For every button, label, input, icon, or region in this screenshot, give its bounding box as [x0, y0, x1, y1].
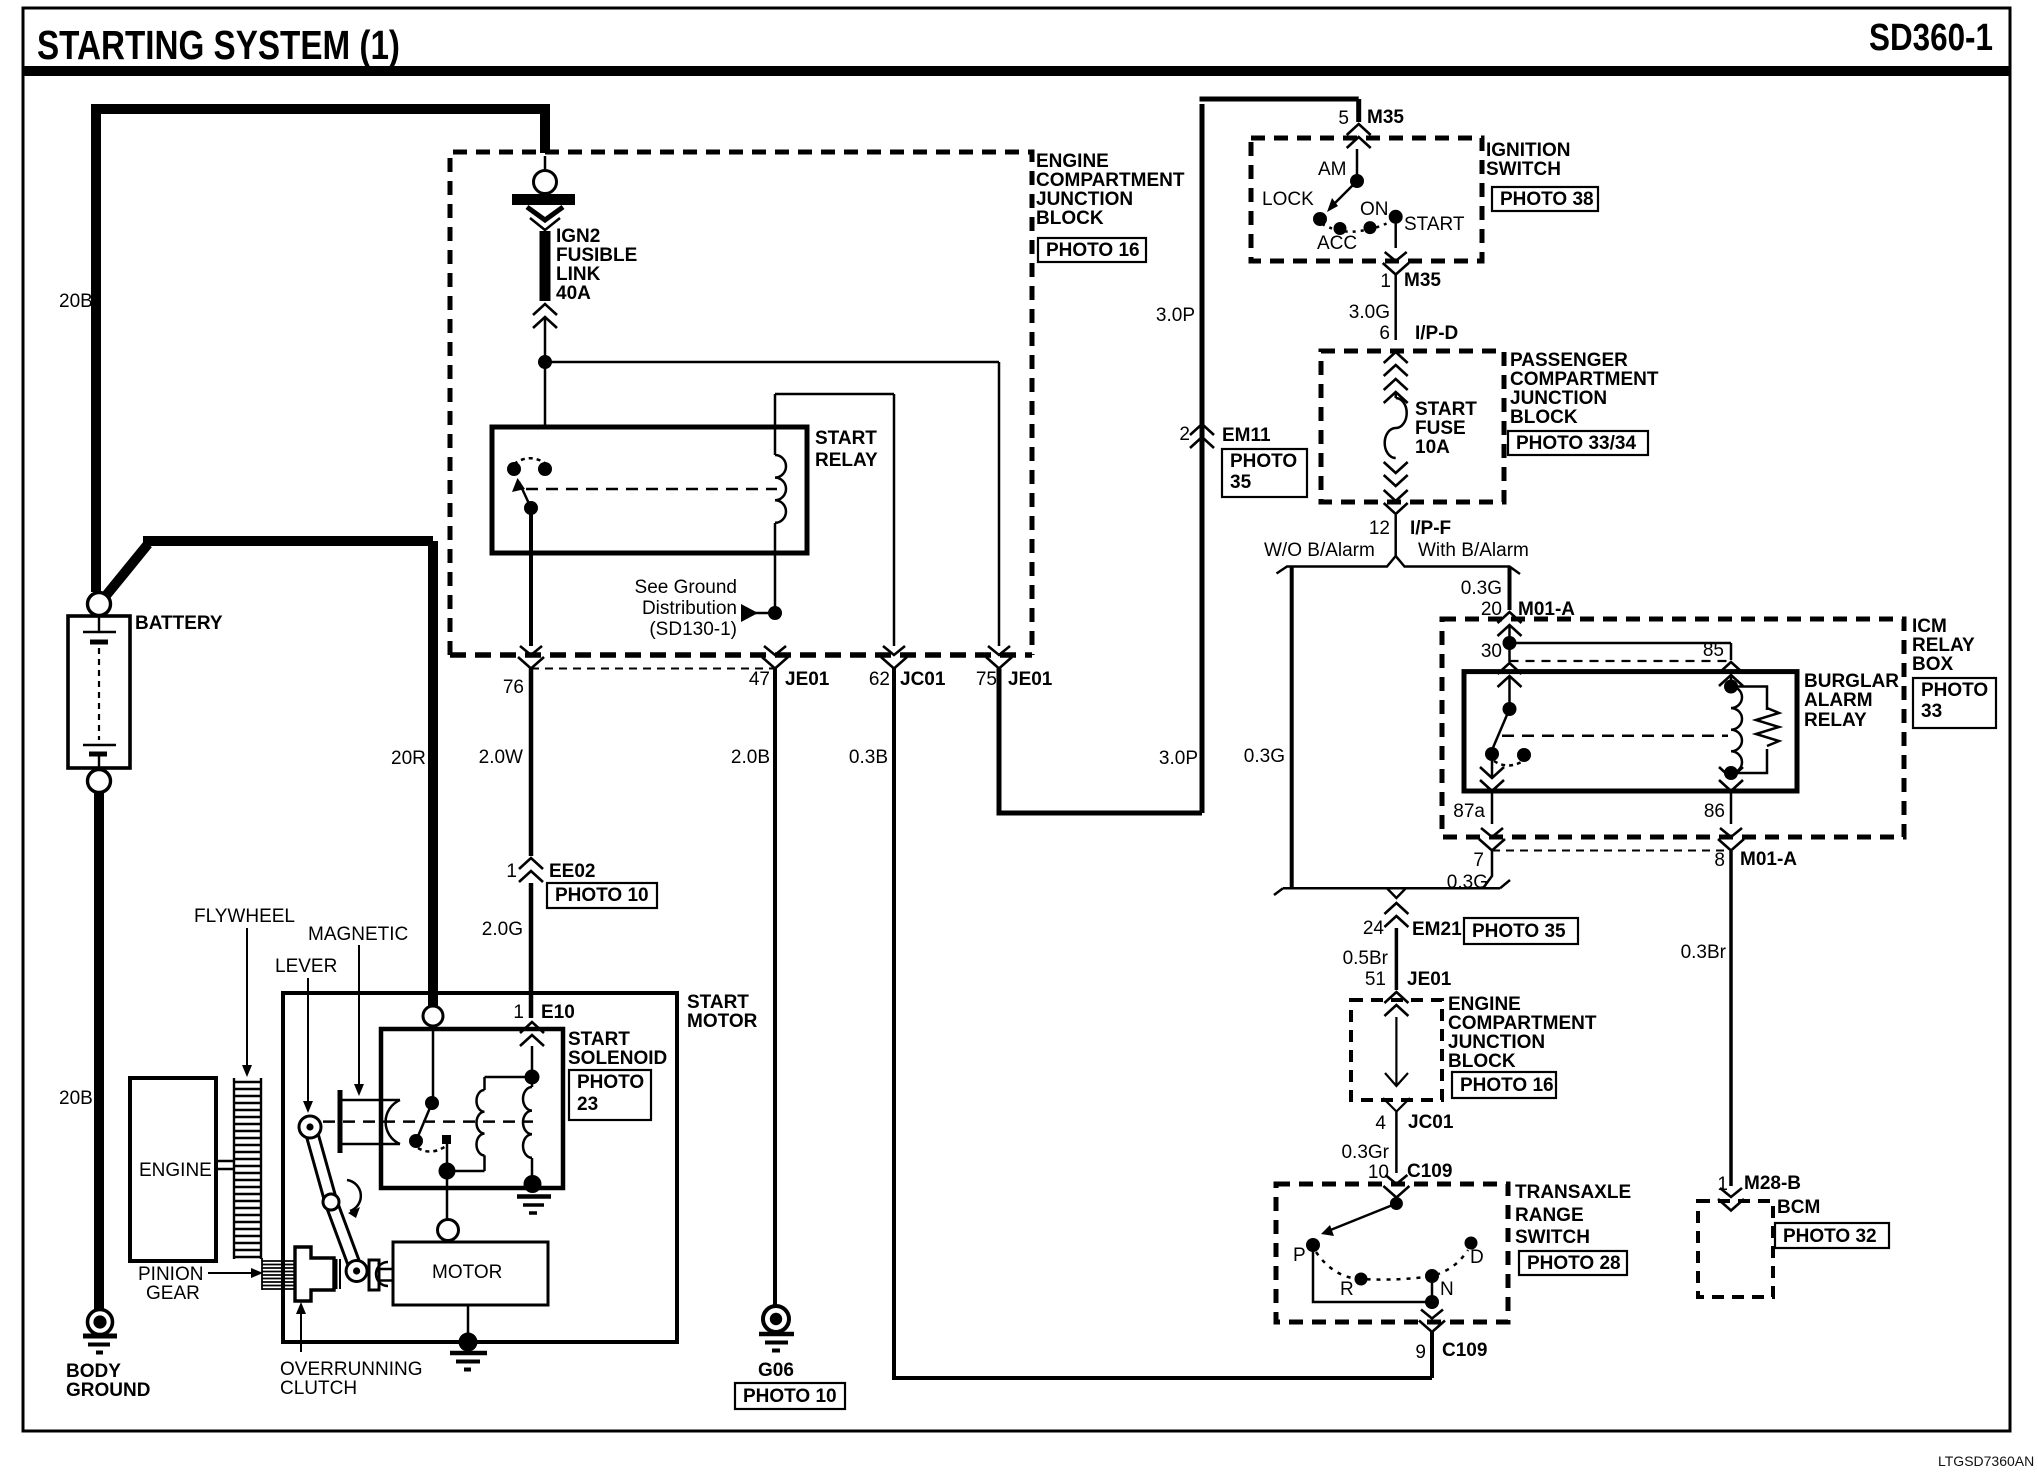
svg-text:12: 12 [1369, 518, 1390, 539]
svg-text:FUSIBLE: FUSIBLE [556, 245, 637, 266]
svg-text:SWITCH: SWITCH [1515, 1227, 1590, 1248]
svg-text:D: D [1470, 1247, 1484, 1268]
svg-text:1: 1 [506, 861, 517, 882]
svg-text:JE01: JE01 [785, 669, 830, 690]
svg-text:BODY: BODY [66, 1361, 121, 1382]
svg-text:0.3B: 0.3B [849, 747, 888, 768]
svg-text:20B: 20B [59, 1088, 93, 1109]
svg-text:PHOTO 35: PHOTO 35 [1472, 921, 1566, 942]
svg-text:I/P-F: I/P-F [1410, 518, 1451, 539]
svg-text:2: 2 [1179, 424, 1190, 445]
svg-text:PHOTO 32: PHOTO 32 [1783, 1226, 1877, 1247]
svg-text:JUNCTION: JUNCTION [1510, 388, 1607, 409]
svg-text:START: START [568, 1029, 630, 1050]
svg-text:IGN2: IGN2 [556, 226, 600, 247]
svg-text:2.0W: 2.0W [479, 747, 523, 768]
svg-text:W/O B/Alarm: W/O B/Alarm [1264, 540, 1375, 561]
svg-text:0.3G: 0.3G [1244, 746, 1285, 767]
svg-text:EE02: EE02 [549, 861, 595, 882]
svg-text:LOCK: LOCK [1262, 189, 1314, 210]
svg-text:START: START [687, 992, 749, 1013]
svg-text:GEAR: GEAR [146, 1283, 200, 1304]
svg-text:MOTOR: MOTOR [687, 1011, 758, 1032]
svg-text:1: 1 [1380, 271, 1391, 292]
svg-text:LEVER: LEVER [275, 956, 337, 977]
svg-text:START: START [1404, 214, 1465, 235]
svg-text:LINK: LINK [556, 264, 601, 285]
svg-text:10: 10 [1368, 1162, 1389, 1183]
svg-text:JE01: JE01 [1407, 969, 1452, 990]
svg-text:FLYWHEEL: FLYWHEEL [194, 906, 295, 927]
svg-text:PHOTO: PHOTO [577, 1072, 644, 1093]
svg-text:AM: AM [1318, 159, 1347, 180]
svg-text:1: 1 [513, 1002, 524, 1023]
svg-text:BLOCK: BLOCK [1448, 1051, 1516, 1072]
svg-text:JC01: JC01 [1408, 1112, 1454, 1133]
svg-text:G06: G06 [758, 1360, 794, 1381]
svg-text:SOLENOID: SOLENOID [568, 1048, 667, 1069]
svg-text:4: 4 [1375, 1113, 1386, 1134]
svg-text:33: 33 [1921, 701, 1942, 722]
svg-text:1: 1 [1717, 1174, 1728, 1195]
svg-text:START: START [1415, 399, 1477, 420]
svg-text:M35: M35 [1404, 270, 1441, 291]
svg-text:0.5Br: 0.5Br [1343, 948, 1389, 969]
svg-text:RELAY: RELAY [1804, 710, 1867, 731]
svg-text:20R: 20R [391, 748, 426, 769]
svg-text:BLOCK: BLOCK [1510, 407, 1578, 428]
svg-text:PHOTO 28: PHOTO 28 [1527, 1253, 1621, 1274]
svg-text:9: 9 [1415, 1342, 1426, 1363]
svg-text:C109: C109 [1407, 1161, 1452, 1182]
svg-text:PASSENGER: PASSENGER [1510, 350, 1628, 371]
svg-text:R: R [1340, 1279, 1354, 1300]
svg-text:35: 35 [1230, 472, 1252, 493]
svg-text:PINION: PINION [138, 1264, 203, 1285]
svg-text:76: 76 [503, 677, 524, 698]
svg-text:RELAY: RELAY [815, 450, 878, 471]
svg-text:CLUTCH: CLUTCH [280, 1378, 357, 1399]
svg-text:24: 24 [1363, 918, 1385, 939]
svg-text:EM11: EM11 [1222, 425, 1271, 446]
svg-text:P: P [1293, 1245, 1306, 1266]
svg-text:FUSE: FUSE [1415, 418, 1466, 439]
svg-text:RELAY: RELAY [1912, 635, 1975, 656]
svg-text:85: 85 [1703, 640, 1724, 661]
svg-text:COMPARTMENT: COMPARTMENT [1036, 170, 1185, 191]
svg-text:3.0G: 3.0G [1349, 302, 1390, 323]
svg-text:PHOTO 33/34: PHOTO 33/34 [1516, 433, 1636, 454]
svg-text:JUNCTION: JUNCTION [1448, 1032, 1545, 1053]
svg-text:SD360-1: SD360-1 [1869, 17, 1993, 59]
svg-text:3.0P: 3.0P [1156, 305, 1195, 326]
svg-text:BATTERY: BATTERY [135, 613, 223, 634]
svg-text:MAGNETIC: MAGNETIC [308, 924, 408, 945]
svg-text:30: 30 [1481, 641, 1502, 662]
svg-text:PHOTO 38: PHOTO 38 [1500, 189, 1594, 210]
svg-text:E10: E10 [541, 1002, 575, 1023]
svg-text:BURGLAR: BURGLAR [1804, 671, 1899, 692]
svg-text:ACC: ACC [1317, 233, 1357, 254]
svg-text:40A: 40A [556, 283, 591, 304]
svg-text:COMPARTMENT: COMPARTMENT [1510, 369, 1659, 390]
svg-text:ICM: ICM [1912, 616, 1947, 637]
svg-text:M28-B: M28-B [1744, 1173, 1801, 1194]
svg-text:PHOTO: PHOTO [1921, 680, 1988, 701]
svg-text:OVERRUNNING: OVERRUNNING [280, 1359, 423, 1380]
svg-text:ENGINE: ENGINE [1448, 994, 1521, 1015]
svg-text:JE01: JE01 [1008, 669, 1053, 690]
svg-text:2.0G: 2.0G [482, 919, 523, 940]
svg-text:Distribution: Distribution [642, 598, 737, 619]
svg-text:20B: 20B [59, 291, 93, 312]
svg-text:With B/Alarm: With B/Alarm [1418, 540, 1529, 561]
svg-text:SWITCH: SWITCH [1486, 159, 1561, 180]
svg-text:86: 86 [1704, 801, 1725, 822]
svg-text:STARTING SYSTEM (1): STARTING SYSTEM (1) [37, 22, 400, 68]
svg-text:I/P-D: I/P-D [1415, 323, 1458, 344]
svg-text:8: 8 [1714, 850, 1725, 871]
svg-text:5: 5 [1338, 108, 1349, 129]
svg-text:BOX: BOX [1912, 654, 1954, 675]
svg-text:87a: 87a [1453, 801, 1485, 822]
svg-text:IGNITION: IGNITION [1486, 140, 1570, 161]
svg-text:ENGINE: ENGINE [139, 1160, 212, 1181]
svg-text:7: 7 [1473, 850, 1484, 871]
svg-text:M35: M35 [1367, 107, 1404, 128]
svg-text:75: 75 [976, 669, 997, 690]
svg-text:3.0P: 3.0P [1159, 748, 1198, 769]
svg-text:2.0B: 2.0B [731, 747, 770, 768]
svg-text:PHOTO 16: PHOTO 16 [1460, 1075, 1554, 1096]
svg-text:0.3Gr: 0.3Gr [1341, 1142, 1389, 1163]
svg-text:COMPARTMENT: COMPARTMENT [1448, 1013, 1597, 1034]
svg-text:PHOTO: PHOTO [1230, 451, 1297, 472]
svg-text:ENGINE: ENGINE [1036, 151, 1109, 172]
svg-text:N: N [1440, 1279, 1454, 1300]
svg-text:LTGSD7360AN: LTGSD7360AN [1938, 1453, 2034, 1469]
svg-text:BLOCK: BLOCK [1036, 208, 1104, 229]
svg-text:ALARM: ALARM [1804, 690, 1873, 711]
svg-text:BCM: BCM [1777, 1197, 1820, 1218]
svg-text:23: 23 [577, 1094, 598, 1115]
svg-text:EM21: EM21 [1412, 919, 1462, 940]
svg-text:START: START [815, 428, 877, 449]
svg-text:PHOTO 16: PHOTO 16 [1046, 240, 1140, 261]
svg-text:C109: C109 [1442, 1340, 1487, 1361]
svg-text:PHOTO 10: PHOTO 10 [743, 1386, 837, 1407]
svg-text:(SD130-1): (SD130-1) [649, 619, 737, 640]
svg-text:10A: 10A [1415, 437, 1450, 458]
svg-text:0.3G: 0.3G [1447, 872, 1488, 893]
svg-text:TRANSAXLE: TRANSAXLE [1515, 1182, 1631, 1203]
svg-text:GROUND: GROUND [66, 1380, 150, 1401]
svg-text:RANGE: RANGE [1515, 1205, 1584, 1226]
svg-text:0.3G: 0.3G [1461, 578, 1502, 599]
svg-text:51: 51 [1365, 969, 1386, 990]
svg-text:See Ground: See Ground [635, 577, 737, 598]
svg-text:M01-A: M01-A [1740, 849, 1797, 870]
svg-text:62: 62 [869, 669, 890, 690]
svg-text:47: 47 [749, 669, 770, 690]
svg-text:ON: ON [1360, 199, 1389, 220]
svg-text:MOTOR: MOTOR [432, 1262, 502, 1283]
svg-text:JC01: JC01 [900, 669, 946, 690]
svg-text:6: 6 [1379, 323, 1390, 344]
svg-text:PHOTO 10: PHOTO 10 [555, 885, 649, 906]
svg-text:JUNCTION: JUNCTION [1036, 189, 1133, 210]
svg-text:0.3Br: 0.3Br [1681, 942, 1727, 963]
